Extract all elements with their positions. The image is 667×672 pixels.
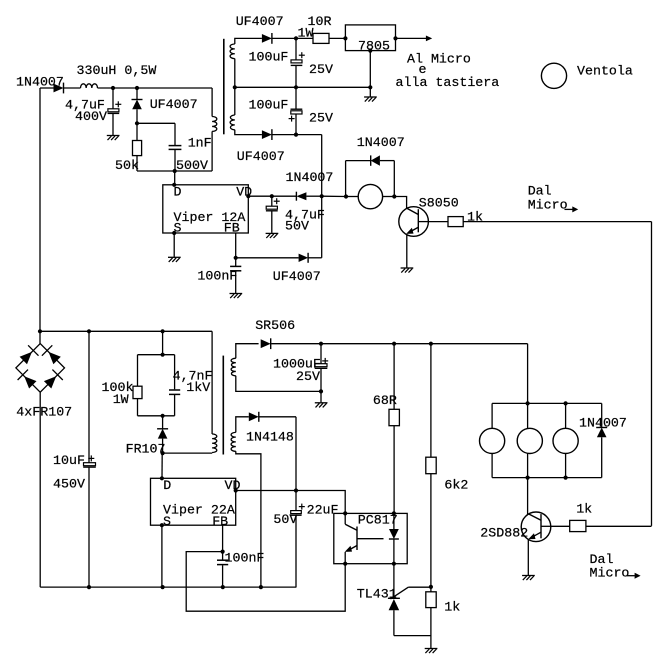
wire VD2 to opto: [296, 491, 345, 514]
shunt regulator U5 TL431: [393, 564, 395, 599]
wire aux rail down: [321, 135, 323, 258]
node U1 FB junction: [234, 256, 238, 260]
capacitor C9 1000uF 25V: [320, 344, 322, 364]
diode D7 1N4007 relay: [345, 161, 347, 197]
bridge rectifier 4xFR107: [16, 344, 65, 393]
capacitor C1 4,7uF 400V: [112, 88, 114, 109]
wire T1 centre tap rail: [235, 86, 370, 88]
svg-text:50k: 50k: [115, 158, 139, 173]
wire bridge bottom to rail: [39, 392, 41, 587]
svg-text:UF4007: UF4007: [236, 14, 284, 29]
wire bridge rail: [40, 330, 212, 332]
wire FB to D5: [236, 257, 299, 259]
svg-text:1nF: 1nF: [188, 136, 212, 151]
capacitor C7 10uF 450V: [88, 331, 90, 462]
svg-text:400V: 400V: [75, 109, 107, 124]
resistor R2 10R 1W: [296, 37, 313, 39]
capacitor C8 4,7nF 1kV: [174, 355, 176, 390]
node relay right junction: [392, 194, 396, 198]
node bottom rail FB2: [221, 585, 225, 589]
wire HV rail to transformer: [98, 87, 213, 89]
transformer T1 core: [223, 39, 225, 135]
svg-text:50V: 50V: [273, 512, 297, 527]
svg-text:Micro: Micro: [590, 565, 630, 580]
svg-text:1kV: 1kV: [186, 380, 210, 395]
diode D10 1N4148: [249, 412, 259, 421]
diode D5 UF4007 bias: [299, 254, 309, 262]
svg-text:1N4007: 1N4007: [16, 75, 64, 90]
svg-text:UF4007: UF4007: [237, 149, 285, 164]
wire motor bus to Q2: [527, 478, 529, 514]
wire snubber bottom: [137, 170, 212, 172]
node U1 VD pin: [246, 194, 250, 198]
wire drain2 to primary: [163, 452, 213, 454]
svg-text:1N4007: 1N4007: [579, 416, 627, 431]
transformer T2 primary: [211, 331, 213, 434]
node opto led cathode pin: [392, 562, 396, 566]
op-amp U1 Viper 12A box: [163, 185, 249, 233]
ground below U1 S: [168, 256, 181, 258]
svg-text:330uH 0,5W: 330uH 0,5W: [77, 63, 157, 78]
transformer T1 secondary top: [235, 38, 262, 44]
svg-text:PC817: PC817: [358, 513, 398, 528]
diode D1 1N4007 input: [40, 87, 54, 89]
capacitor C10 22uF 50V: [295, 491, 297, 511]
svg-text:Dal: Dal: [528, 184, 552, 199]
diode D4 UF4007 bottom secondary: [262, 130, 272, 139]
node VD C6 junction: [270, 194, 274, 198]
node motor bus j1: [526, 401, 530, 405]
svg-text:Micro: Micro: [528, 198, 568, 213]
node clamp bottom junction: [135, 121, 139, 125]
transformer T2 core: [222, 356, 224, 455]
inductor L1 330uH: [81, 84, 98, 88]
wire FB2 feedback link: [186, 552, 345, 612]
regulator U2 7805: [345, 25, 395, 51]
transformer T2 secondary bottom: [236, 417, 249, 433]
capacitor C5 100nF: [230, 265, 241, 267]
wire drain to D pin: [174, 171, 176, 185]
svg-text:7805: 7805: [358, 39, 390, 54]
transformer T1 primary: [211, 88, 213, 117]
node bridge output junction: [38, 329, 42, 333]
transformer T2 secondary top: [236, 344, 259, 359]
opto transistor U4: [344, 513, 346, 524]
resistor R8 1k base2: [551, 525, 570, 527]
svg-text:S8050: S8050: [419, 195, 459, 210]
node U3 S pin: [160, 523, 164, 527]
ground below 7805: [364, 96, 377, 98]
wire motor bottom bus: [492, 477, 602, 479]
wire aux to relay: [322, 195, 346, 197]
wire U3 VD line: [236, 490, 296, 492]
diode D8 FR107: [162, 416, 164, 429]
wire rail to motor bus: [527, 344, 529, 404]
arrow Dal Micro bottom: [627, 575, 635, 577]
node U3 FB junction: [221, 550, 225, 554]
svg-text:D: D: [163, 478, 171, 493]
svg-text:4xFR107: 4xFR107: [16, 405, 72, 420]
wire VD to D6: [272, 195, 297, 197]
svg-text:100uF: 100uF: [249, 98, 289, 113]
wire U1 S to ground: [173, 233, 175, 257]
svg-text:FB: FB: [212, 514, 228, 529]
svg-text:UF4007: UF4007: [150, 97, 198, 112]
node relay left junction: [344, 194, 348, 198]
wire U3 FB down: [222, 525, 224, 559]
svg-text:1k: 1k: [576, 502, 592, 517]
ground below C1: [107, 135, 120, 137]
wire Q1 emitter to ground: [406, 234, 408, 268]
node 7805 input pin: [343, 36, 347, 40]
wire sec2 gnd stub: [320, 391, 322, 402]
node snubber2 top junction: [161, 353, 165, 357]
opto LED U4: [392, 511, 396, 515]
diode D3 UF4007 top secondary: [262, 34, 272, 43]
svg-text:25V: 25V: [309, 111, 333, 126]
svg-text:2SD882: 2SD882: [480, 526, 528, 541]
resistor R4 100k 1W: [137, 355, 139, 387]
diode D2 UF4007 clamp: [136, 88, 138, 99]
node D3 output junction: [294, 36, 298, 40]
node centre rail junction: [294, 85, 298, 89]
svg-text:6k2: 6k2: [444, 478, 468, 493]
node rail snubber junction: [161, 329, 165, 333]
ground below Q1: [401, 267, 414, 269]
node motor bbus j2: [564, 476, 568, 480]
node bottom rail sec2: [259, 585, 263, 589]
svg-text:1k: 1k: [444, 600, 460, 615]
ground below C6: [266, 232, 279, 234]
node motor bbus j1: [526, 476, 530, 480]
node drain2 junction: [161, 451, 165, 455]
node VD2 junction: [294, 488, 298, 492]
resistor R3 1k base: [428, 221, 448, 223]
svg-text:1W: 1W: [298, 26, 314, 41]
wire motor top bus: [492, 402, 602, 404]
transformer T1 secondary bottom: [234, 87, 236, 115]
wire snubber2 bottom: [138, 415, 175, 417]
transistor Q1 S8050: [399, 207, 429, 237]
ground below R7: [425, 648, 438, 650]
node TL431 ref junction: [429, 585, 433, 589]
wire drain2 to D pin: [161, 453, 163, 478]
motor M1: [491, 403, 493, 428]
wire TL431 anode to gnd: [394, 635, 431, 637]
node U3 D pin: [160, 476, 164, 480]
diode D6 1N4007 bias: [296, 192, 306, 200]
svg-text:Al Micro: Al Micro: [407, 52, 471, 67]
node U1 S pin: [172, 231, 176, 235]
node bottom rail C7: [87, 585, 91, 589]
svg-text:FB: FB: [224, 221, 240, 236]
svg-text:1N4007: 1N4007: [357, 135, 405, 150]
ground below Q2: [522, 575, 535, 577]
wire main out rail: [321, 343, 528, 345]
svg-text:68R: 68R: [373, 393, 397, 408]
svg-text:Ventola: Ventola: [577, 64, 633, 79]
fan symbol Ventola: [541, 63, 566, 88]
relay coil K1: [358, 184, 382, 208]
svg-text:alla tastiera: alla tastiera: [396, 75, 500, 90]
node junction C1: [111, 86, 115, 90]
node D4 output junction: [294, 133, 298, 137]
motor M2: [527, 403, 529, 428]
svg-text:450V: 450V: [53, 477, 85, 492]
svg-text:10uF: 10uF: [53, 453, 85, 468]
svg-text:1N4148: 1N4148: [246, 430, 294, 445]
node sec2 gnd junction: [319, 389, 323, 393]
wire micro line right vertical: [651, 222, 653, 526]
capacitor C2 1nF: [169, 145, 182, 147]
wire U3 S to rail: [161, 525, 163, 587]
node opto emitter pin: [343, 562, 347, 566]
resistor R6 6k2: [430, 344, 432, 458]
svg-text:1N4007: 1N4007: [286, 170, 334, 185]
node U3 VD pin: [234, 488, 238, 492]
wire 7805 output arrow: [396, 37, 427, 39]
node rail 68R junction: [392, 342, 396, 346]
capacitor C4 100uF 25V bottom: [295, 87, 297, 109]
svg-text:1k: 1k: [467, 210, 483, 225]
motor M3: [565, 403, 567, 428]
svg-text:100nF: 100nF: [225, 551, 265, 566]
wire bottom rail: [40, 586, 296, 588]
wire snubber2 top: [138, 354, 175, 356]
wire clamp node to C2: [137, 122, 175, 124]
svg-text:TL431: TL431: [357, 587, 397, 602]
wire U1 FB down: [235, 233, 237, 266]
op-amp U3 Viper 22A box: [151, 478, 236, 525]
wire left rail down: [39, 88, 41, 344]
svg-text:50V: 50V: [285, 219, 309, 234]
arrow Dal Micro top: [565, 208, 573, 210]
resistor R7 1k: [426, 592, 436, 608]
capacitor C3 100uF 25V top: [295, 38, 297, 60]
wire rail to snubber2: [162, 331, 164, 354]
capacitor C6 4,7uF 50V: [271, 196, 273, 206]
node bottom rail S2: [161, 585, 165, 589]
capacitor C11 100nF: [217, 559, 228, 561]
ground below C5: [230, 293, 243, 295]
transistor Q2 2SD882: [521, 512, 551, 542]
node T1 centre tap: [233, 85, 237, 89]
node U1 D pin: [172, 183, 176, 187]
node 7805 ground pin: [368, 49, 372, 53]
resistor R5 68R: [393, 344, 395, 410]
node 7805 gnd junction: [368, 85, 372, 89]
svg-text:25V: 25V: [309, 62, 333, 77]
node aux rail junction: [320, 194, 324, 198]
node opto collector pin: [343, 511, 347, 515]
resistor R1 50k: [136, 123, 138, 140]
node snubber2 bottom junction: [161, 414, 165, 418]
wire relay to Q1 collector: [394, 197, 406, 209]
svg-text:25V: 25V: [296, 369, 320, 384]
svg-text:UF4007: UF4007: [273, 269, 321, 284]
svg-text:100uF: 100uF: [249, 50, 289, 65]
wire Q2 emitter to gnd: [527, 539, 529, 575]
diode D11 1N4007 flyback: [601, 403, 603, 427]
svg-text:SR506: SR506: [255, 318, 295, 333]
wire 7805 ground: [369, 51, 371, 97]
optocoupler U4 PC817 box: [334, 513, 407, 563]
node main out junction: [319, 342, 323, 346]
diode D9 SR506: [261, 339, 271, 348]
svg-text:1W: 1W: [113, 392, 129, 407]
node rail 6k2 junction: [429, 342, 433, 346]
node drain junction: [173, 169, 177, 173]
node rail C7 junction: [87, 329, 91, 333]
wire U1 VD to C6: [248, 195, 271, 197]
ground below C9: [315, 402, 328, 404]
node motor bus j2: [564, 401, 568, 405]
svg-text:100nF: 100nF: [197, 269, 237, 284]
node junction clamp: [135, 86, 139, 90]
svg-text:FR107: FR107: [126, 442, 166, 457]
node 7805 output pin: [393, 36, 397, 40]
svg-text:S: S: [163, 514, 171, 529]
